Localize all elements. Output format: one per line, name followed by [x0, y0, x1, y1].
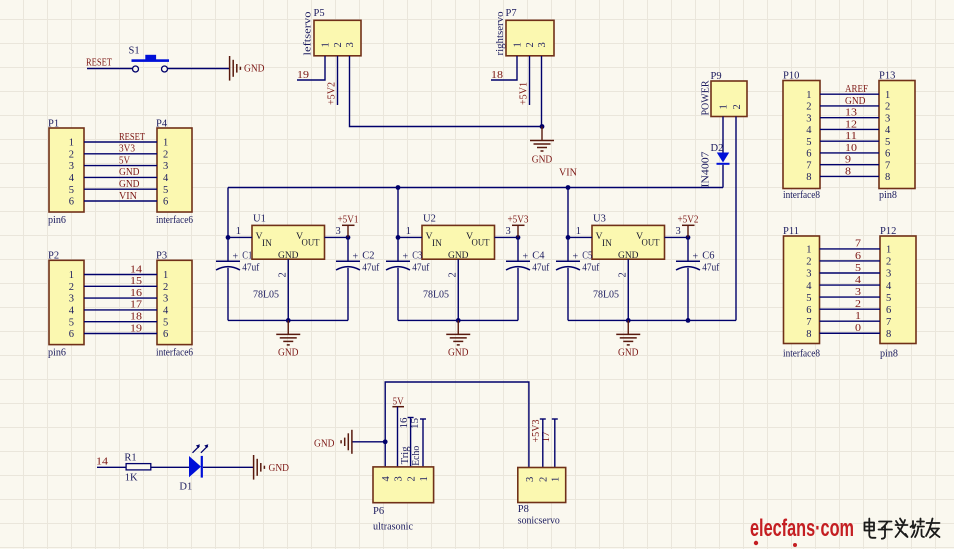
net label VIN — [559, 168, 577, 179]
svg-text:1: 1 — [719, 104, 730, 109]
svg-text:+: + — [573, 252, 579, 263]
svg-text:C1: C1 — [242, 251, 252, 262]
svg-text:4: 4 — [69, 173, 75, 184]
pin 3 — [495, 226, 519, 237]
svg-text:GND: GND — [314, 438, 335, 449]
svg-text:P8: P8 — [518, 504, 529, 515]
svg-text:10: 10 — [845, 143, 857, 154]
svg-text:3: 3 — [806, 113, 811, 124]
svg-text:C4: C4 — [532, 251, 545, 262]
svg-text:3: 3 — [886, 269, 891, 280]
wire — [84, 200, 157, 202]
svg-text:1: 1 — [806, 245, 811, 256]
wire — [350, 56, 543, 127]
svg-text:6: 6 — [886, 305, 891, 316]
svg-text:GND: GND — [244, 64, 265, 75]
svg-text:4: 4 — [806, 281, 812, 292]
svg-text:1: 1 — [163, 270, 168, 281]
svg-text:6: 6 — [806, 149, 811, 160]
wire — [541, 56, 543, 127]
svg-text:6: 6 — [806, 305, 811, 316]
svg-text:OUT: OUT — [472, 239, 490, 249]
svg-text:GND: GND — [119, 179, 140, 190]
svg-text:47uf: 47uf — [582, 262, 599, 273]
wire — [687, 268, 689, 321]
wire — [297, 56, 325, 80]
net label 15 — [410, 418, 421, 429]
net label 4 — [855, 275, 862, 286]
svg-text:IN: IN — [432, 239, 442, 249]
power +5V2 — [327, 82, 338, 105]
svg-text:1: 1 — [513, 42, 524, 47]
svg-text:8: 8 — [885, 172, 890, 183]
svg-text:16: 16 — [399, 418, 410, 429]
svg-text:4: 4 — [381, 476, 392, 482]
wire — [820, 308, 881, 310]
ground GND — [230, 56, 265, 81]
junction — [540, 124, 545, 129]
svg-text:GND: GND — [532, 155, 553, 166]
svg-text:+5V1: +5V1 — [519, 82, 530, 105]
net label 19 — [130, 323, 142, 334]
svg-text:3: 3 — [855, 287, 861, 298]
wire — [97, 466, 126, 468]
svg-text:9: 9 — [845, 155, 851, 166]
svg-text:5: 5 — [806, 137, 811, 148]
svg-text:+: + — [233, 252, 239, 263]
net label 0 — [855, 323, 861, 334]
svg-text:7: 7 — [885, 160, 890, 171]
net label RESET — [119, 132, 145, 143]
wire — [420, 419, 426, 467]
net label AREF — [845, 84, 868, 95]
capacitor C6 — [676, 251, 720, 274]
wire — [820, 260, 881, 262]
wire — [820, 332, 881, 334]
net label 15 — [130, 276, 142, 287]
svg-text:2: 2 — [617, 272, 628, 277]
svg-text:2: 2 — [163, 149, 168, 160]
svg-text:IN: IN — [262, 239, 272, 249]
power +5V1 — [519, 82, 530, 105]
svg-text:interface8: interface8 — [783, 349, 820, 360]
wire — [203, 466, 253, 468]
wire — [820, 164, 879, 166]
net label 11 — [845, 131, 857, 142]
capacitor C1 — [216, 251, 260, 274]
connector P10 — [783, 71, 820, 202]
wire — [87, 68, 132, 70]
svg-text:+5V2: +5V2 — [327, 82, 338, 105]
svg-text:Trig: Trig — [400, 446, 411, 465]
net label 19 — [297, 70, 309, 81]
wire — [820, 175, 879, 177]
connector P1 — [48, 119, 84, 227]
connector P12 — [880, 226, 916, 360]
svg-text:GND: GND — [618, 348, 639, 359]
svg-text:8: 8 — [845, 166, 851, 177]
wire — [397, 188, 399, 262]
svg-text:P7: P7 — [506, 8, 517, 19]
wire — [820, 117, 879, 119]
junction — [286, 318, 291, 323]
svg-text:2: 2 — [885, 102, 890, 113]
svg-text:2: 2 — [163, 282, 168, 293]
svg-text:2: 2 — [886, 257, 891, 268]
junction — [383, 439, 388, 444]
junction — [516, 235, 521, 240]
svg-text:GND: GND — [278, 348, 299, 359]
wire — [84, 188, 157, 190]
svg-text:+: + — [353, 252, 359, 263]
svg-text:6: 6 — [855, 251, 861, 262]
svg-text:VIN: VIN — [119, 191, 137, 202]
net label 17 — [130, 300, 142, 311]
wire — [84, 141, 157, 143]
net label 18 — [130, 312, 142, 323]
svg-text:2: 2 — [855, 299, 861, 310]
net label 5V — [119, 155, 130, 166]
svg-text:5: 5 — [886, 293, 891, 304]
net label 3V3 — [119, 144, 135, 155]
connector P8 — [518, 468, 566, 527]
svg-text:pin6: pin6 — [48, 347, 66, 358]
net label GND — [845, 96, 866, 107]
svg-text:interface8: interface8 — [783, 190, 820, 201]
junction — [346, 235, 351, 240]
pin 2 — [277, 259, 288, 320]
net label 2 — [855, 299, 861, 310]
connector P2 — [48, 251, 84, 359]
connector P7 — [495, 8, 554, 56]
svg-text:47uf: 47uf — [702, 262, 719, 273]
capacitor C4 — [506, 251, 550, 274]
wire — [491, 56, 517, 80]
ground GND — [446, 320, 470, 358]
svg-text:2: 2 — [806, 257, 811, 268]
svg-text:4: 4 — [163, 173, 169, 184]
net label 16 — [130, 288, 142, 299]
svg-text:5: 5 — [69, 317, 74, 328]
svg-text:5V: 5V — [119, 155, 130, 166]
wire — [84, 274, 157, 276]
wire — [722, 165, 724, 188]
wire — [820, 152, 879, 154]
pin 1 — [568, 226, 592, 237]
wire — [567, 188, 569, 262]
wire — [820, 140, 879, 142]
wire — [347, 268, 349, 321]
svg-text:14: 14 — [96, 457, 109, 468]
svg-text:15: 15 — [130, 276, 142, 287]
connector P5 — [303, 8, 362, 56]
svg-text:6: 6 — [163, 329, 168, 340]
ground GND — [530, 127, 554, 166]
wire — [820, 248, 881, 250]
svg-text:1: 1 — [576, 226, 581, 237]
svg-text:+5V1: +5V1 — [338, 214, 359, 225]
svg-text:47uf: 47uf — [412, 262, 429, 273]
svg-text:1: 1 — [69, 138, 74, 149]
wire — [517, 237, 519, 261]
svg-text:S1: S1 — [129, 46, 140, 57]
svg-text:pin6: pin6 — [48, 215, 66, 226]
svg-text:1: 1 — [886, 245, 891, 256]
svg-text:GND: GND — [845, 96, 866, 107]
svg-text:elecfans·com: elecfans·com — [750, 515, 854, 542]
svg-text:P5: P5 — [314, 8, 325, 19]
svg-text:2: 2 — [538, 477, 549, 482]
svg-text:+: + — [403, 252, 409, 263]
wire — [227, 188, 229, 262]
svg-text:GND: GND — [448, 348, 469, 359]
wire — [398, 319, 518, 321]
svg-text:1: 1 — [69, 270, 74, 281]
junction — [566, 235, 571, 240]
svg-text:4: 4 — [885, 125, 891, 136]
svg-text:rightservo: rightservo — [495, 12, 506, 56]
svg-text:3: 3 — [525, 477, 536, 482]
svg-text:2: 2 — [732, 104, 743, 109]
svg-text:1: 1 — [550, 477, 561, 482]
svg-text:+: + — [693, 252, 699, 263]
svg-text:IN4007: IN4007 — [701, 152, 712, 188]
svg-text:6: 6 — [885, 149, 890, 160]
net label GND — [119, 167, 140, 178]
svg-text:5: 5 — [69, 185, 74, 196]
wire — [84, 333, 157, 335]
net label 6 — [855, 251, 861, 262]
connector P3 — [156, 251, 193, 359]
svg-text:16: 16 — [130, 288, 142, 299]
power +5V1 — [338, 214, 359, 237]
power +5V2 — [678, 214, 699, 237]
svg-text:D2: D2 — [711, 143, 724, 154]
net label 16 — [399, 418, 410, 429]
wire — [168, 68, 230, 70]
wire — [408, 418, 414, 468]
wire — [567, 268, 569, 321]
svg-text:1: 1 — [419, 476, 430, 481]
svg-text:GND: GND — [269, 463, 290, 474]
wire — [687, 237, 689, 261]
svg-text:5V: 5V — [393, 396, 404, 407]
junction — [566, 185, 571, 190]
svg-text:VIN: VIN — [559, 168, 577, 179]
svg-text:1: 1 — [885, 90, 890, 101]
svg-text:C2: C2 — [362, 251, 374, 262]
logo chinese text — [865, 519, 940, 539]
LED D1 — [179, 444, 208, 492]
svg-text:3: 3 — [336, 226, 341, 237]
svg-text:1: 1 — [163, 138, 168, 149]
svg-text:1: 1 — [321, 42, 332, 47]
svg-text:U1: U1 — [253, 214, 266, 225]
net label 12 — [845, 119, 857, 130]
connector P13 — [879, 71, 915, 202]
wire — [820, 320, 881, 322]
svg-text:sonicservo: sonicservo — [518, 515, 560, 526]
wire — [820, 105, 879, 107]
wire — [397, 407, 399, 467]
resistor R1 — [124, 452, 150, 483]
svg-text:4: 4 — [886, 281, 892, 292]
wire — [84, 321, 157, 323]
wire — [84, 176, 157, 178]
svg-text:GND: GND — [119, 167, 140, 178]
wire — [84, 285, 157, 287]
regulator U3 — [592, 214, 665, 301]
wire — [820, 93, 879, 95]
junction — [686, 318, 691, 323]
svg-text:6: 6 — [69, 329, 74, 340]
svg-text:R1: R1 — [124, 452, 136, 463]
svg-text:leftservo: leftservo — [303, 12, 314, 56]
net label Echo — [411, 446, 422, 466]
wire — [820, 296, 881, 298]
ground GND — [276, 320, 300, 358]
svg-text:U3: U3 — [593, 214, 606, 225]
wire — [227, 268, 229, 321]
wire — [84, 309, 157, 311]
svg-text:15: 15 — [410, 418, 421, 429]
connector P4 — [156, 119, 193, 227]
svg-text:5: 5 — [885, 137, 890, 148]
svg-text:pin8: pin8 — [879, 190, 897, 201]
wire — [84, 153, 157, 155]
wire — [540, 419, 546, 468]
wire — [735, 117, 737, 321]
wire — [722, 117, 724, 153]
svg-text:3: 3 — [537, 42, 548, 47]
net label 10 — [845, 143, 857, 154]
svg-text:2: 2 — [806, 102, 811, 113]
wire — [228, 319, 348, 321]
svg-text:3: 3 — [69, 161, 74, 172]
svg-text:7: 7 — [806, 160, 811, 171]
wire — [820, 272, 881, 274]
svg-text:17: 17 — [130, 300, 142, 311]
regulator U1 — [252, 214, 325, 301]
svg-text:C3: C3 — [412, 251, 422, 262]
pin 3 — [325, 226, 349, 237]
svg-text:2: 2 — [525, 42, 536, 47]
svg-text:3: 3 — [163, 294, 168, 305]
svg-text:RESET: RESET — [86, 58, 112, 69]
svg-text:18: 18 — [130, 312, 142, 323]
svg-text:1: 1 — [855, 311, 861, 322]
svg-text:47uf: 47uf — [362, 262, 379, 273]
svg-text:8: 8 — [806, 172, 811, 183]
svg-text:D1: D1 — [179, 481, 192, 492]
svg-text:2: 2 — [69, 149, 74, 160]
ground GND — [314, 430, 352, 454]
wire — [397, 268, 399, 321]
junction — [456, 318, 461, 323]
svg-text:4: 4 — [855, 275, 862, 286]
wire — [151, 466, 189, 468]
svg-text:8: 8 — [806, 329, 811, 340]
ground GND — [254, 455, 290, 480]
svg-text:11: 11 — [845, 131, 857, 142]
wire — [820, 128, 879, 130]
connector P9 — [701, 71, 748, 117]
svg-text:2: 2 — [69, 282, 74, 293]
svg-text:3: 3 — [69, 294, 74, 305]
svg-text:2: 2 — [277, 272, 288, 277]
svg-text:3: 3 — [394, 476, 405, 481]
net label GND — [119, 179, 140, 190]
svg-text:5: 5 — [855, 263, 861, 274]
svg-text:4: 4 — [806, 125, 812, 136]
svg-text:3: 3 — [345, 42, 356, 47]
capacitor C5 — [556, 251, 600, 274]
wire — [529, 56, 531, 105]
svg-text:pin8: pin8 — [880, 349, 898, 360]
net label 1 — [855, 311, 861, 322]
svg-text:interface6: interface6 — [156, 215, 193, 226]
svg-text:78L05: 78L05 — [253, 290, 279, 301]
svg-text:5: 5 — [163, 317, 168, 328]
regulator U2 — [422, 214, 495, 301]
net label 18 — [491, 70, 503, 81]
svg-text:14: 14 — [130, 264, 143, 275]
svg-text:47uf: 47uf — [242, 262, 259, 273]
net label Trig — [400, 446, 411, 465]
wire — [84, 165, 157, 167]
wire — [568, 319, 736, 321]
svg-text:2: 2 — [447, 272, 458, 277]
junction — [686, 235, 691, 240]
svg-text:5: 5 — [163, 185, 168, 196]
wire — [84, 297, 157, 299]
svg-text:U2: U2 — [423, 214, 436, 225]
connector P6 — [373, 467, 434, 533]
svg-text:1K: 1K — [125, 472, 138, 483]
net label 14 — [96, 457, 109, 468]
svg-text:7: 7 — [806, 317, 811, 328]
svg-text:2: 2 — [333, 42, 344, 47]
switch S1 — [129, 46, 170, 73]
svg-text:12: 12 — [845, 119, 857, 130]
svg-text:3V3: 3V3 — [119, 144, 135, 155]
svg-text:8: 8 — [886, 329, 891, 340]
svg-text:47uf: 47uf — [532, 262, 549, 273]
svg-text:7: 7 — [855, 239, 861, 250]
svg-text:6: 6 — [69, 197, 74, 208]
capacitor C2 — [336, 251, 380, 274]
junction — [226, 235, 231, 240]
svg-text:ultrasonic: ultrasonic — [373, 522, 413, 533]
svg-text:13: 13 — [845, 108, 857, 119]
pin 2 — [447, 259, 458, 320]
svg-text:7: 7 — [886, 317, 891, 328]
pin 2 — [617, 259, 628, 320]
svg-text:6: 6 — [163, 197, 168, 208]
pin 3 — [665, 226, 689, 237]
svg-text:3: 3 — [885, 113, 890, 124]
pin 1 — [398, 226, 422, 237]
svg-text:+: + — [523, 252, 529, 263]
svg-text:3: 3 — [806, 269, 811, 280]
net label 5 — [855, 263, 861, 274]
svg-text:P6: P6 — [373, 506, 384, 517]
wire — [337, 56, 339, 105]
svg-text:RESET: RESET — [119, 132, 145, 143]
svg-text:C5: C5 — [582, 251, 592, 262]
svg-text:3: 3 — [163, 161, 168, 172]
power 5V — [392, 396, 404, 407]
